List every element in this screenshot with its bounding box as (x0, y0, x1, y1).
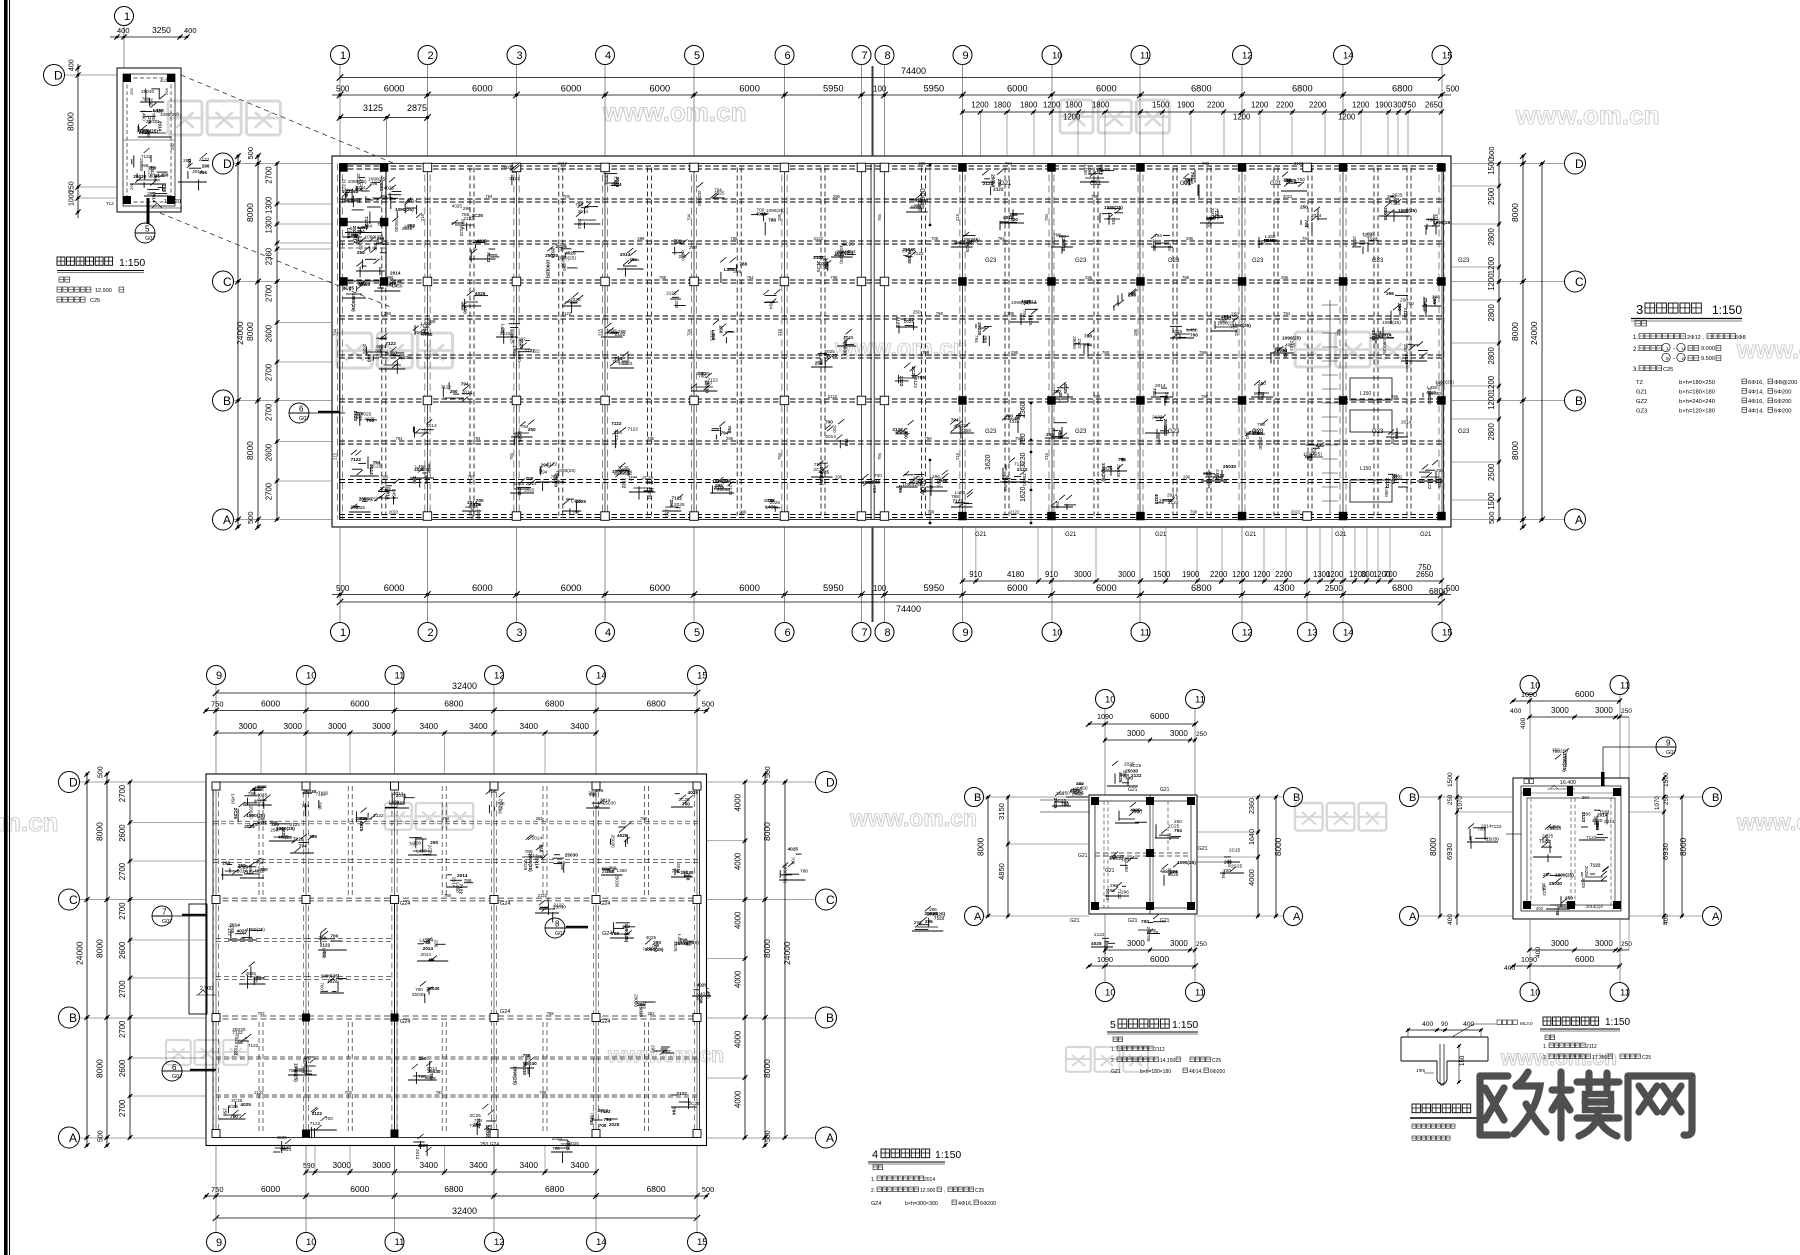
svg-text:6Φ16,: 6Φ16, (1748, 380, 1764, 386)
svg-text:7122: 7122 (385, 341, 396, 346)
svg-text:788: 788 (1436, 468, 1444, 473)
svg-text:GZ3: GZ3 (1636, 409, 1647, 415)
svg-text:202: 202 (359, 816, 367, 821)
svg-text:8000: 8000 (95, 822, 105, 841)
svg-text:250 G24: 250 G24 (480, 1142, 499, 1148)
svg-text:G07: G07 (1666, 750, 1676, 756)
svg-text:702: 702 (345, 1090, 353, 1095)
svg-text:25030: 25030 (1159, 498, 1172, 503)
svg-text:6930: 6930 (1445, 843, 1454, 860)
svg-text:2025: 2025 (228, 1104, 239, 1109)
svg-text:296: 296 (699, 996, 704, 1004)
svg-text:286: 286 (509, 328, 514, 336)
svg-text:700: 700 (1552, 747, 1560, 752)
svg-text:296: 296 (384, 311, 392, 316)
svg-text:794: 794 (488, 789, 496, 794)
svg-text:296: 296 (202, 164, 210, 169)
svg-text:b×h=180×180: b×h=180×180 (1140, 1069, 1171, 1075)
svg-text:1200: 1200 (1233, 113, 1251, 122)
svg-text:794: 794 (721, 430, 729, 435)
svg-text:C25: C25 (1663, 367, 1673, 373)
svg-text:2.: 2. (1111, 1058, 1115, 1064)
svg-text:8000: 8000 (1274, 837, 1283, 856)
svg-text:1090(25): 1090(25) (351, 293, 356, 312)
svg-text:1500: 1500 (1447, 772, 1454, 787)
svg-text:Φ8@200: Φ8@200 (1774, 380, 1797, 386)
svg-text:14: 14 (1343, 627, 1354, 638)
svg-text:100: 100 (873, 85, 887, 94)
svg-text:G07: G07 (555, 931, 565, 937)
svg-text:1800: 1800 (994, 101, 1012, 110)
svg-text:14: 14 (596, 1237, 607, 1248)
svg-text:24000: 24000 (782, 941, 792, 965)
svg-text:2C25: 2C25 (148, 166, 153, 178)
svg-text:5: 5 (1110, 1019, 1116, 1031)
svg-text:100: 100 (873, 584, 887, 593)
svg-text:8: 8 (885, 50, 891, 62)
svg-text:910: 910 (969, 570, 983, 579)
svg-text:ML3.0: ML3.0 (1520, 1021, 1533, 1026)
plan4 columns (212, 782, 701, 1138)
svg-text:6Φ200: 6Φ200 (1210, 1069, 1225, 1075)
svg-text:3000: 3000 (284, 721, 303, 731)
svg-text:2122: 2122 (1294, 161, 1304, 166)
plan6 top bubbles and dims (1510, 676, 1632, 779)
svg-text:2700: 2700 (265, 403, 274, 421)
svg-text:282: 282 (648, 1011, 656, 1016)
svg-text:500: 500 (765, 1130, 772, 1142)
svg-text:2014: 2014 (467, 500, 478, 505)
svg-text:5: 5 (694, 627, 700, 639)
svg-text:1070: 1070 (1457, 796, 1464, 810)
svg-text:L450: L450 (344, 193, 349, 204)
watermark row 2 (337, 332, 1800, 368)
plan4 section bubble 6 (162, 1061, 216, 1081)
svg-text:3250: 3250 (152, 25, 171, 35)
svg-text:2600: 2600 (265, 324, 274, 342)
svg-text:1800: 1800 (1092, 101, 1110, 110)
top grid bubbles (331, 46, 1453, 157)
svg-text:L450: L450 (231, 794, 236, 805)
svg-text:10: 10 (1052, 50, 1063, 61)
svg-text:292: 292 (170, 142, 175, 150)
svg-text:3000: 3000 (1551, 706, 1569, 715)
svg-text:6000: 6000 (561, 84, 582, 94)
svg-text:1500: 1500 (1487, 492, 1496, 510)
svg-text:286: 286 (1336, 328, 1341, 336)
svg-text:794: 794 (487, 1125, 492, 1133)
svg-text:12.520: 12.520 (164, 199, 181, 205)
svg-text:6800: 6800 (647, 1184, 666, 1194)
svg-text:6Φ200: 6Φ200 (1774, 390, 1792, 396)
plan4 annotation clusters (219, 786, 946, 1163)
svg-text:6: 6 (785, 50, 791, 62)
svg-text:296: 296 (129, 183, 134, 190)
svg-text:G21: G21 (1128, 787, 1138, 793)
svg-text:2014: 2014 (427, 1066, 438, 1071)
svg-text:9: 9 (963, 50, 969, 62)
svg-text:794: 794 (1174, 828, 1182, 833)
svg-text:788: 788 (258, 816, 266, 821)
svg-text:2122: 2122 (459, 226, 464, 237)
svg-text:794: 794 (1044, 213, 1049, 221)
svg-text:250: 250 (419, 1056, 427, 1061)
svg-text:1090(25): 1090(25) (902, 482, 921, 487)
svg-text:1:150: 1:150 (935, 1149, 961, 1161)
svg-text:12.900: 12.900 (95, 288, 112, 294)
svg-text:250: 250 (1543, 872, 1551, 877)
svg-text:1300: 1300 (265, 196, 274, 214)
svg-text:25030: 25030 (1549, 881, 1562, 886)
svg-text:788: 788 (539, 1090, 547, 1095)
svg-text:3000: 3000 (1551, 939, 1569, 948)
svg-text:798: 798 (936, 311, 944, 316)
svg-text:6000: 6000 (650, 583, 671, 593)
svg-text:798: 798 (830, 275, 838, 280)
svg-text:7122: 7122 (389, 281, 400, 286)
svg-text:2025: 2025 (824, 349, 835, 354)
svg-text:11: 11 (395, 1237, 405, 1248)
svg-text:25030: 25030 (1223, 464, 1236, 469)
svg-text:2025: 2025 (523, 860, 528, 871)
svg-text:4300: 4300 (1274, 583, 1295, 593)
svg-text:3400: 3400 (520, 721, 539, 731)
svg-text:788: 788 (1084, 333, 1092, 338)
svg-text:4025: 4025 (565, 1140, 570, 1151)
svg-text:794: 794 (426, 938, 434, 943)
svg-text:2122: 2122 (509, 176, 520, 181)
svg-text:4: 4 (605, 627, 611, 639)
svg-text:2014: 2014 (151, 192, 156, 203)
svg-text:2500: 2500 (1487, 187, 1496, 205)
svg-text:250: 250 (322, 950, 327, 958)
main plan notes (1633, 321, 1797, 415)
svg-text:500: 500 (1487, 511, 1496, 524)
svg-text:750: 750 (1418, 563, 1432, 572)
svg-text:4025: 4025 (348, 226, 353, 237)
svg-text:1:150: 1:150 (119, 257, 145, 269)
svg-text:250: 250 (270, 827, 278, 832)
svg-text:794: 794 (747, 275, 755, 280)
svg-text:9: 9 (963, 627, 969, 639)
svg-text:2700: 2700 (265, 284, 274, 302)
main plan left row bubbles (213, 153, 333, 530)
svg-text:3000: 3000 (1127, 939, 1145, 948)
svg-text:402: 402 (1536, 906, 1544, 911)
svg-text:2122: 2122 (373, 813, 384, 818)
svg-text:500: 500 (336, 85, 350, 94)
svg-text:400: 400 (1520, 717, 1527, 729)
svg-text:3400: 3400 (420, 1160, 439, 1170)
svg-text:2700: 2700 (265, 363, 274, 381)
svg-text:6: 6 (785, 627, 791, 639)
svg-text:794: 794 (396, 436, 404, 441)
svg-text:788: 788 (739, 261, 747, 266)
svg-text:4025: 4025 (1091, 941, 1102, 946)
svg-text:6000: 6000 (472, 583, 493, 593)
svg-text:4025: 4025 (764, 498, 775, 503)
svg-text:G23: G23 (1458, 258, 1470, 264)
svg-text:74400: 74400 (896, 604, 921, 614)
big logo char WANG (1628, 1076, 1692, 1138)
svg-text:25030: 25030 (1110, 856, 1123, 861)
svg-text:5950: 5950 (823, 84, 844, 94)
svg-text:282: 282 (536, 816, 544, 821)
svg-text:788: 788 (444, 893, 452, 898)
svg-text:1090(25): 1090(25) (712, 479, 731, 484)
svg-text:25030: 25030 (232, 1027, 245, 1032)
svg-text:250: 250 (674, 300, 679, 308)
svg-text:25030: 25030 (1022, 473, 1027, 486)
svg-text:296: 296 (199, 170, 207, 175)
bottom grid bubbles (331, 527, 1453, 642)
interior vertical dims near joint (918, 164, 1032, 525)
svg-text:700: 700 (526, 476, 534, 481)
plan6 level 16.400 (1524, 779, 1576, 789)
svg-text:10: 10 (1105, 987, 1116, 998)
svg-text:794: 794 (1304, 220, 1309, 228)
svg-text:7122: 7122 (611, 421, 622, 426)
svg-text:250: 250 (1565, 896, 1573, 901)
svg-text:6800: 6800 (647, 699, 666, 709)
svg-text:L450: L450 (360, 282, 371, 287)
svg-text:2014: 2014 (551, 248, 556, 259)
svg-text:2122: 2122 (379, 241, 390, 246)
svg-text:25030: 25030 (1258, 437, 1263, 450)
svg-text:B: B (1293, 792, 1300, 804)
svg-text:700: 700 (1141, 919, 1149, 924)
svg-text:1620: 1620 (1020, 486, 1027, 502)
svg-text:L450: L450 (1124, 862, 1129, 873)
svg-text:6Φ200: 6Φ200 (1774, 399, 1792, 405)
svg-text:2.: 2. (1633, 347, 1638, 353)
svg-text:2C25: 2C25 (1437, 477, 1442, 489)
svg-text:296: 296 (1011, 350, 1019, 355)
svg-text:296: 296 (925, 919, 933, 924)
svg-text:A: A (974, 911, 982, 923)
svg-text:G21: G21 (1160, 787, 1170, 793)
svg-text:5: 5 (145, 225, 150, 234)
svg-text:794: 794 (1283, 311, 1291, 316)
svg-text:6000: 6000 (261, 1184, 280, 1194)
svg-text:250: 250 (815, 360, 823, 365)
svg-text:400: 400 (69, 59, 76, 71)
svg-text:GZ4: GZ4 (871, 1201, 881, 1207)
svg-text:1900: 1900 (1177, 101, 1195, 110)
svg-text:788: 788 (940, 479, 948, 484)
svg-text:8000: 8000 (245, 322, 255, 341)
svg-text:6000: 6000 (261, 699, 280, 709)
svg-text:4000: 4000 (1247, 869, 1256, 886)
svg-text:1090: 1090 (1521, 955, 1537, 964)
svg-text:1200: 1200 (1487, 392, 1496, 410)
svg-text:L150: L150 (1360, 466, 1371, 472)
svg-text:2800: 2800 (1487, 422, 1496, 440)
svg-text:1200: 1200 (1326, 570, 1344, 579)
stair detail grid bubble 1 (115, 7, 134, 69)
svg-text:2600: 2600 (118, 824, 127, 842)
svg-text:2122: 2122 (983, 181, 994, 186)
svg-text:4L050: 4L050 (160, 78, 172, 83)
svg-text:2.: 2. (871, 1188, 875, 1194)
svg-text:L150: L150 (1360, 391, 1371, 397)
svg-text:1090(25): 1090(25) (1382, 337, 1387, 356)
drawing frame left border (4, 0, 10, 1255)
svg-text:2025: 2025 (609, 1122, 620, 1127)
svg-text:2025: 2025 (281, 827, 286, 838)
svg-text:2C25: 2C25 (233, 808, 238, 820)
svg-text:700: 700 (1297, 177, 1305, 182)
svg-text:12: 12 (494, 1237, 505, 1248)
plan5 title (1107, 1019, 1198, 1034)
svg-text:3000: 3000 (1170, 729, 1188, 738)
svg-text:788: 788 (381, 475, 389, 480)
svg-text:7122: 7122 (628, 427, 639, 432)
svg-text:794: 794 (373, 460, 381, 465)
svg-text:1200: 1200 (1487, 375, 1496, 393)
svg-text:3.: 3. (1633, 367, 1638, 373)
svg-text:9: 9 (1666, 739, 1671, 748)
svg-text:2014: 2014 (1401, 420, 1412, 425)
svg-text:L450: L450 (367, 351, 372, 362)
svg-text:3000: 3000 (372, 721, 391, 731)
main plan title 3F (1631, 302, 1742, 321)
svg-text:296: 296 (835, 475, 843, 480)
svg-text:4025: 4025 (257, 792, 268, 797)
svg-text:A: A (826, 1131, 834, 1145)
svg-text:www.o: www.o (1736, 337, 1800, 364)
svg-text:794: 794 (540, 469, 548, 474)
svg-text:9.500: 9.500 (1701, 356, 1715, 362)
svg-text:15: 15 (697, 670, 708, 681)
svg-text:500: 500 (702, 700, 715, 709)
svg-text:L450: L450 (1152, 241, 1157, 252)
svg-text:296: 296 (650, 1045, 655, 1053)
svg-text:6800: 6800 (545, 699, 564, 709)
svg-text:10: 10 (306, 670, 317, 681)
svg-text:2122: 2122 (1010, 510, 1020, 515)
svg-text:25030: 25030 (412, 992, 425, 997)
svg-text:400: 400 (184, 26, 197, 35)
svg-text:2122: 2122 (828, 394, 838, 399)
svg-text:794: 794 (474, 436, 482, 441)
svg-text:788: 788 (652, 943, 660, 948)
svg-text:6Φ200: 6Φ200 (1774, 409, 1792, 415)
hook detail label (1410, 1104, 1478, 1140)
svg-text:250: 250 (665, 509, 670, 517)
stair detail plan top-left (117, 68, 181, 212)
svg-text:14.150: 14.150 (1160, 1058, 1176, 1064)
svg-text:296: 296 (380, 194, 388, 199)
svg-text:2122: 2122 (320, 942, 331, 947)
svg-text:A: A (69, 1131, 77, 1145)
svg-text:2122: 2122 (475, 239, 486, 244)
svg-text:2014: 2014 (578, 209, 589, 214)
svg-text:1090: 1090 (1097, 712, 1113, 721)
svg-text:296: 296 (463, 206, 471, 211)
svg-text:1200: 1200 (1043, 101, 1061, 110)
svg-text:700: 700 (790, 857, 795, 865)
svg-text:794: 794 (814, 462, 822, 467)
svg-text:2025: 2025 (396, 793, 407, 798)
svg-text:25030: 25030 (1072, 336, 1077, 349)
svg-text:1620: 1620 (985, 454, 992, 470)
top overall dimension 74400 (337, 66, 1445, 81)
svg-text:1: 1 (340, 50, 346, 62)
svg-text:788: 788 (590, 1112, 595, 1120)
svg-text:794: 794 (1111, 217, 1116, 225)
svg-text:794: 794 (1203, 471, 1211, 476)
svg-text:2025: 2025 (570, 297, 581, 302)
svg-text:L450: L450 (711, 330, 716, 341)
svg-text:14: 14 (596, 670, 607, 681)
svg-text:B: B (974, 792, 981, 804)
svg-text:4025: 4025 (1009, 419, 1020, 424)
svg-text:3000: 3000 (333, 1160, 352, 1170)
svg-text:700: 700 (330, 934, 338, 939)
svg-text:2122: 2122 (614, 429, 619, 440)
svg-text:7122: 7122 (1539, 839, 1550, 844)
svg-text:2014: 2014 (421, 952, 432, 957)
svg-text:G07: G07 (299, 416, 309, 422)
plan5 G21 labels (1070, 787, 1208, 924)
svg-text:om.cn: om.cn (0, 807, 59, 837)
hook detail body (1401, 1037, 1488, 1085)
svg-text:788: 788 (461, 212, 469, 217)
svg-text:794: 794 (647, 492, 652, 500)
plan4 G24 labels (400, 901, 612, 1148)
svg-text:400: 400 (1663, 914, 1670, 925)
svg-text:25030: 25030 (141, 89, 154, 94)
plan4 beam labels (254, 816, 655, 1095)
svg-text:7122: 7122 (234, 1045, 239, 1056)
svg-text:1.: 1. (871, 1177, 875, 1183)
svg-text:296: 296 (997, 179, 1002, 187)
svg-text:2122: 2122 (895, 317, 900, 328)
svg-text:5950: 5950 (823, 583, 844, 593)
svg-text:2200: 2200 (1275, 570, 1293, 579)
svg-text:3: 3 (1636, 302, 1643, 317)
svg-text:12: 12 (1242, 627, 1253, 638)
svg-text:700: 700 (825, 420, 833, 425)
svg-text:C: C (69, 893, 78, 907)
svg-text:590: 590 (303, 1163, 315, 1170)
svg-text:788: 788 (572, 510, 580, 515)
svg-text:1200: 1200 (1487, 256, 1496, 274)
svg-text:D: D (826, 775, 835, 789)
svg-text:2122: 2122 (1131, 773, 1142, 778)
svg-text:b×h=120×180: b×h=120×180 (1679, 409, 1715, 415)
svg-text:6800: 6800 (1392, 583, 1413, 593)
svg-text:700: 700 (366, 418, 374, 423)
svg-text:25030: 25030 (1061, 238, 1066, 251)
plan5 right bubbles and dims (1197, 788, 1303, 926)
svg-text:4025: 4025 (359, 821, 364, 832)
svg-text:1800: 1800 (1065, 101, 1083, 110)
plan4 right dim chains (707, 766, 793, 1148)
svg-text:6000: 6000 (650, 84, 671, 94)
svg-text:2014: 2014 (1311, 213, 1322, 218)
svg-text:G21: G21 (1105, 868, 1115, 874)
svg-text:D: D (1575, 157, 1584, 171)
svg-text:4000: 4000 (734, 793, 743, 811)
svg-text:788: 788 (1091, 194, 1099, 199)
svg-text:A: A (1575, 513, 1583, 527)
svg-text:296: 296 (141, 163, 149, 168)
svg-text:700: 700 (425, 332, 433, 337)
plan4 title (868, 1149, 961, 1164)
svg-text:6000: 6000 (1007, 84, 1028, 94)
